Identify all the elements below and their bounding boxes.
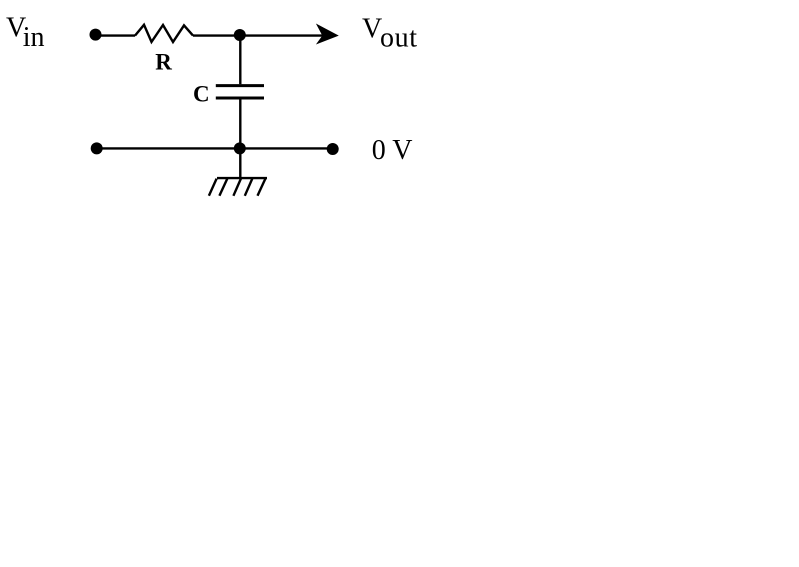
node: 0V rail right terminal	[327, 143, 339, 155]
wire: capacitor C to 0V rail	[239, 99, 241, 148]
svg-text:C: C	[193, 82, 210, 107]
node A: junction of R, C and Vout	[234, 29, 246, 41]
ground	[209, 178, 267, 196]
wire: 0V ground rail	[97, 147, 333, 149]
wire: resistor R to Vout arrow through node A	[193, 34, 324, 36]
wire: node A down to capacitor C	[239, 35, 241, 84]
svg-text:0 V: 0 V	[372, 135, 413, 166]
wire: node B down to ground symbol	[239, 148, 241, 178]
node: 0V rail left terminal	[91, 142, 103, 154]
wire: input node to resistor R	[96, 34, 136, 36]
svg-text:R: R	[155, 50, 172, 75]
capacitor C	[216, 86, 264, 98]
node B: junction of C and 0V rail	[234, 142, 246, 154]
resistor R	[135, 25, 193, 42]
node: Vin input terminal	[90, 29, 102, 41]
arrow: Vout output arrowhead	[316, 24, 339, 45]
